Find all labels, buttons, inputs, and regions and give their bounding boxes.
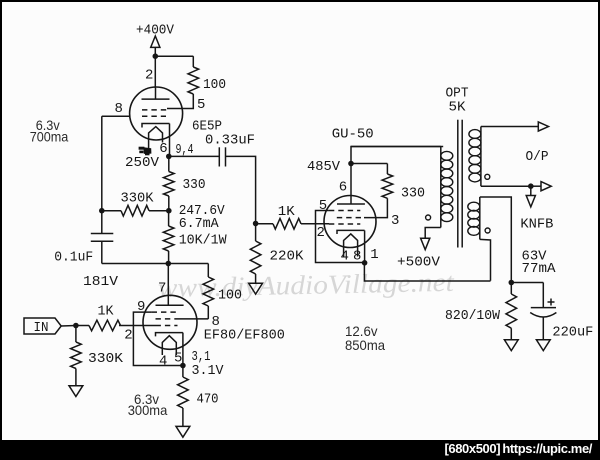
wire node E to R9 — [256, 223, 273, 225]
resistor R11 330 screen — [382, 174, 393, 198]
svg-text:5K: 5K — [449, 99, 467, 115]
svg-text:5: 5 — [319, 198, 327, 214]
power +500V arrow — [421, 238, 430, 249]
wire node B stub left — [149, 210, 169, 212]
wire R10 top stub — [255, 224, 257, 242]
wire IN to node — [61, 325, 76, 328]
wire node C up to pin8 — [101, 116, 103, 211]
secondary phase dot — [485, 174, 490, 179]
wire pin2 from node — [154, 56, 156, 88]
svg-text:77mA: 77mA — [522, 261, 557, 277]
node D junction — [166, 261, 172, 267]
svg-text:250V: 250V — [125, 155, 160, 171]
wire EF80 anode stem — [167, 264, 169, 306]
svg-text:1: 1 — [370, 247, 378, 263]
svg-text:0.1uF: 0.1uF — [54, 249, 93, 265]
ground below R6 — [176, 426, 190, 437]
wire R10 bottom stub — [255, 274, 257, 283]
U3 grid g2 dashes — [337, 217, 364, 219]
OPT primary spine — [440, 147, 442, 228]
wire node H stub — [531, 185, 541, 187]
ground below C3 — [536, 340, 550, 351]
U2 anode plate — [156, 304, 184, 306]
wire pin2 g1 — [119, 325, 156, 327]
wire KNFB bottom lead — [480, 239, 491, 280]
resistor R 100 (6E5P anode) — [188, 67, 199, 94]
resistor R2 330 — [164, 172, 175, 197]
svg-text:5: 5 — [197, 97, 205, 113]
node B junction — [166, 208, 172, 214]
wire secondary top lead — [481, 126, 538, 128]
wire R1 bottom to pin5 — [167, 94, 193, 109]
U3 cathode bar — [337, 230, 365, 234]
wire primary bottom lead — [425, 228, 441, 239]
wire R11 to pin3 — [364, 198, 387, 217]
resistor R4 10K/1W — [163, 226, 174, 251]
resistor R6 470 — [178, 377, 189, 408]
C3 curved plate — [530, 313, 556, 318]
ground below R10 — [249, 283, 263, 294]
capacitor C1 0.1uF stub — [101, 211, 103, 234]
wire R12 top stub — [510, 283, 512, 295]
svg-text:100: 100 — [203, 77, 226, 93]
arrow O/P top — [538, 122, 548, 131]
node E grid junction — [253, 221, 259, 227]
resistor R7 1K grid stopper — [89, 320, 121, 331]
U1 grid g2 dashes — [142, 109, 167, 111]
node B+ junction — [153, 53, 159, 59]
svg-text:1K: 1K — [98, 304, 115, 320]
svg-text:7: 7 — [158, 281, 166, 297]
ground below R12 — [504, 340, 518, 351]
wire node G to R11 — [351, 163, 387, 165]
node A cathode junction — [166, 154, 172, 160]
svg-text:220K: 220K — [270, 248, 305, 264]
OPT secondary spine — [480, 127, 482, 187]
node IN junction — [73, 323, 79, 329]
svg-text:2: 2 — [124, 327, 132, 343]
svg-text:8: 8 — [115, 101, 123, 117]
wire KNFB top lead — [480, 197, 512, 283]
U2 cathode bar — [156, 333, 183, 337]
U3 grid g1 dashes — [329, 210, 360, 212]
wire U3 anode stem — [350, 164, 352, 205]
wire 330K to node C — [102, 210, 121, 212]
svg-text:10K/1W: 10K/1W — [179, 233, 228, 249]
C1 bottom stub — [101, 241, 103, 263]
tube U3 GU-50 envelope — [324, 196, 376, 248]
C3 top plate — [531, 307, 556, 309]
power +400V arrow — [151, 36, 160, 47]
svg-text:+500V: +500V — [397, 254, 441, 270]
capacitor C2 0.33uF left plate — [218, 147, 220, 166]
OPT feedback spine — [479, 197, 481, 239]
svg-text:300ma: 300ma — [128, 402, 168, 418]
wire R9 to pin2 — [301, 223, 329, 225]
wire +400V stem — [154, 47, 156, 56]
tube U2 EF80 envelope — [143, 295, 197, 349]
wire R4 bottom stub — [168, 251, 170, 264]
wire pin5 g1 — [316, 211, 365, 263]
svg-text:3: 3 — [391, 213, 399, 229]
svg-text:220uF: 220uF — [552, 324, 593, 340]
connector IN tag — [24, 318, 61, 334]
wire R8 bottom stub — [75, 369, 77, 386]
wire primary top lead — [351, 146, 441, 148]
svg-text:6.7mA: 6.7mA — [179, 216, 220, 232]
wire C2 to corner — [225, 156, 255, 223]
arrow down below node H — [526, 196, 535, 207]
resistor R8 330K input — [71, 342, 82, 369]
resistor R12 820/10W — [506, 294, 517, 328]
ground below R8 — [69, 386, 83, 397]
U3 heater filament — [344, 234, 358, 257]
wire R8 top stub — [75, 326, 77, 343]
svg-text:6: 6 — [159, 141, 167, 157]
C1 bottom plate — [91, 240, 114, 242]
svg-text:850ma: 850ma — [345, 337, 385, 353]
U1 heater filament — [149, 127, 163, 150]
wire R11 top stub — [386, 164, 388, 175]
svg-text:181V: 181V — [83, 274, 119, 290]
svg-text:700ma: 700ma — [30, 128, 69, 144]
wire R12 bottom stub — [510, 328, 512, 340]
U2 grid g2 dashes — [156, 318, 178, 320]
wire R1 top stub — [192, 56, 194, 67]
OPT primary winding — [441, 151, 453, 160]
wire pin8 g2 — [178, 318, 209, 320]
wire B+ to R1 — [155, 55, 193, 57]
annotation arrow cursor — [139, 147, 152, 156]
primary phase dot — [426, 215, 431, 220]
node G anode junction — [348, 161, 354, 167]
C1 top plate — [91, 233, 114, 235]
svg-text:330K: 330K — [88, 351, 124, 367]
wire pin8 grid — [102, 115, 130, 117]
svg-text:330K: 330K — [121, 191, 155, 207]
U2 heater filament — [162, 336, 176, 355]
node E2 cathode junction — [180, 363, 186, 369]
wire R4 top stub — [168, 211, 170, 226]
U2 grid g3 dashes — [152, 311, 178, 313]
U3 anode plate — [337, 203, 365, 205]
C3 bottom stem — [542, 317, 544, 340]
OPT feedback winding — [468, 202, 480, 211]
C2 right plate — [225, 147, 227, 166]
wire pin9 to g3 — [133, 312, 183, 365]
svg-text:9: 9 — [137, 299, 145, 315]
wire cathode to KNFB — [364, 263, 490, 281]
tube U1 6E5P envelope — [130, 87, 183, 140]
svg-text:8: 8 — [353, 249, 361, 265]
U1 cathode bar — [142, 124, 170, 128]
svg-text:100: 100 — [218, 288, 242, 304]
svg-text:1K: 1K — [278, 204, 296, 220]
svg-text:330: 330 — [183, 177, 206, 193]
svg-text:820/10W: 820/10W — [445, 308, 501, 324]
svg-text:O/P: O/P — [526, 149, 549, 165]
node F cathode junction — [362, 260, 368, 266]
U1 grid g1 dashes — [142, 115, 166, 117]
svg-text:4: 4 — [159, 354, 167, 370]
svg-text:EF80/EF800: EF80/EF800 — [204, 327, 285, 343]
U1 anode plate — [155, 88, 157, 99]
wire R2 to node B — [168, 156, 170, 171]
svg-text:IN: IN — [34, 320, 49, 336]
wire cathode pin6 drop — [169, 124, 171, 157]
svg-text:3.1V: 3.1V — [192, 363, 225, 379]
resistor R9 1K (GU-50 grid) — [273, 219, 301, 230]
wire R6 bottom stub — [182, 408, 184, 426]
wire cathode drop U2 — [182, 333, 184, 366]
svg-text:485V: 485V — [307, 159, 341, 175]
feedback phase dot — [485, 228, 490, 233]
C3 plus sign — [548, 301, 555, 303]
wire node A to C2 — [169, 155, 219, 157]
wire cathode drop U3 — [364, 230, 366, 262]
svg-text:2: 2 — [317, 225, 325, 241]
svg-text:KNFB: KNFB — [520, 217, 553, 233]
wire node H ground stem — [530, 186, 532, 195]
node H junction — [528, 183, 534, 189]
svg-text:330: 330 — [401, 185, 425, 201]
wire anode to OPT — [351, 147, 443, 164]
U3 grid g3 dashes — [329, 223, 360, 225]
OPT secondary winding — [469, 130, 481, 139]
wire R5 top stub — [207, 264, 209, 278]
svg-text:6: 6 — [339, 180, 347, 196]
node I junction — [509, 280, 515, 286]
svg-text:2: 2 — [145, 68, 153, 84]
resistor R10 220K — [250, 241, 261, 274]
OPT core left — [457, 120, 459, 248]
svg-text:www.diyAudioVillage.net: www.diyAudioVillage.net — [157, 267, 455, 303]
OPT core right — [461, 120, 463, 248]
wire R6 top stub — [182, 366, 184, 378]
caption bar — [0, 440, 600, 460]
svg-text:0.33uF: 0.33uF — [205, 133, 255, 149]
wire 1K stub left — [76, 325, 89, 327]
wire R5 bottom stub — [207, 306, 209, 319]
svg-text:470: 470 — [197, 392, 219, 408]
resistor R5 100 screen — [203, 277, 214, 306]
node C junction — [99, 208, 105, 214]
capacitor C3 220uF stem — [542, 283, 544, 308]
wire secondary bottom lead — [481, 185, 531, 187]
wire supply rail — [102, 263, 209, 265]
svg-text:4: 4 — [341, 249, 349, 265]
svg-text:GU-50: GU-50 — [332, 126, 374, 142]
wire node I to cap — [511, 282, 543, 284]
U2 grid g1 dashes — [156, 325, 178, 327]
resistor R3 330K grid leak — [121, 205, 149, 216]
arrow O/P return — [541, 182, 551, 191]
